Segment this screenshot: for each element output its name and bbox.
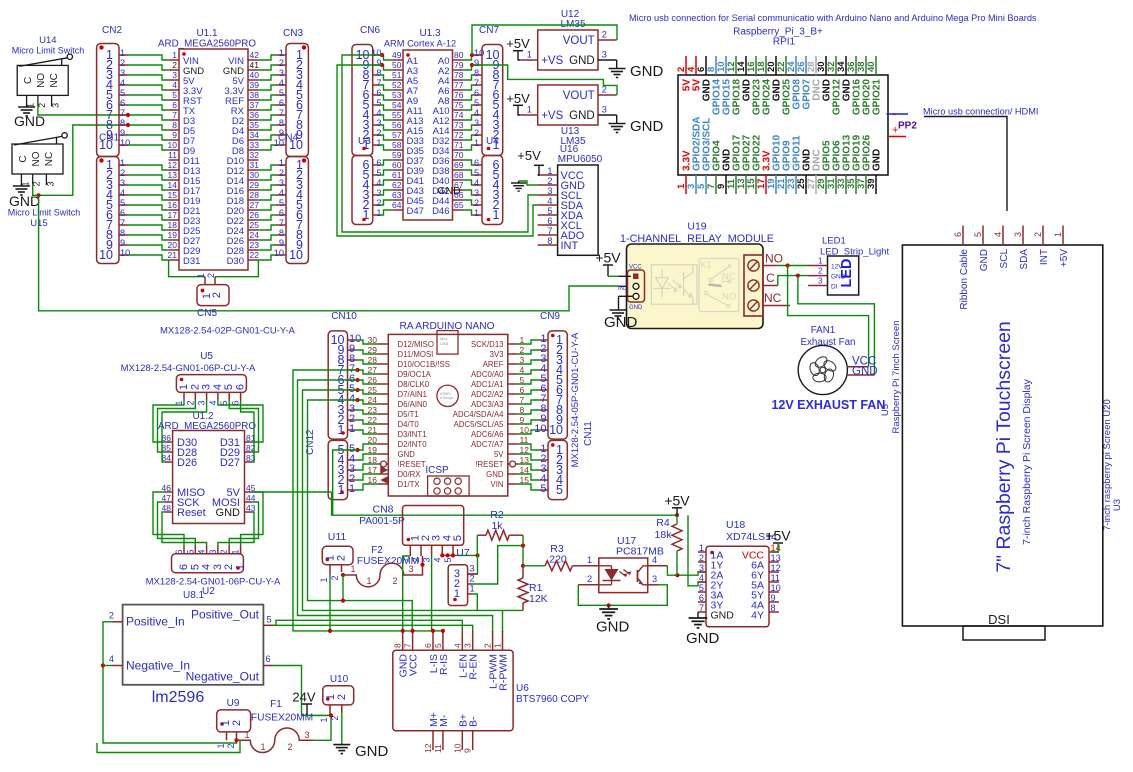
svg-text:+5V: +5V (765, 528, 791, 544)
wire U7 pin2 to R2 right node (472, 546, 523, 584)
svg-text:IN1: IN1 (618, 286, 628, 292)
svg-text:CN3: CN3 (283, 28, 303, 39)
svg-text:RPI1: RPI1 (773, 37, 796, 48)
svg-text:24: 24 (250, 230, 260, 240)
svg-text:GND: GND (398, 450, 416, 459)
svg-text:21: 21 (168, 250, 178, 260)
wire second bottom run (97, 740, 240, 752)
svg-text:CN10: CN10 (331, 311, 357, 322)
svg-text:GND: GND (569, 110, 595, 122)
svg-text:59: 59 (392, 150, 402, 160)
svg-text:U5: U5 (880, 404, 891, 416)
svg-text:NO: NO (36, 73, 47, 88)
svg-text:4: 4 (120, 188, 125, 198)
svg-text:3: 3 (602, 105, 607, 115)
svg-text:U3: U3 (358, 136, 371, 147)
svg-text:U1.1: U1.1 (196, 28, 218, 39)
svg-text:SCL: SCL (999, 249, 1010, 269)
svg-text:6: 6 (547, 216, 552, 226)
svg-text:C: C (23, 77, 34, 84)
svg-text:U10: U10 (330, 674, 349, 685)
svg-text:PP2: PP2 (898, 121, 917, 132)
svg-text:23: 23 (250, 240, 260, 250)
+5V long rail wire (332, 492, 677, 515)
svg-text:6: 6 (279, 208, 284, 218)
svg-text:4: 4 (376, 108, 381, 118)
svg-text:ADC6/A6: ADC6/A6 (471, 430, 504, 439)
svg-text:31: 31 (250, 160, 260, 170)
svg-text:69: 69 (454, 160, 464, 170)
wire CN8 pin1 to U6 GND (403, 556, 411, 631)
svg-text:24V: 24V (292, 690, 315, 705)
svg-text:CN9: CN9 (540, 311, 560, 322)
svg-text:U11: U11 (328, 531, 347, 543)
connector CN2 upper (pins 1-10) (97, 44, 119, 157)
svg-text:13: 13 (168, 170, 178, 180)
NANO usb connector drawing (437, 331, 458, 355)
wire +5V vertical to U18 2Y (688, 515, 706, 586)
svg-text:7: 7 (172, 110, 177, 120)
connector CN7 lower U4 (pins 6-1) (482, 156, 503, 225)
svg-text:4: 4 (279, 188, 284, 198)
svg-text:3: 3 (212, 564, 224, 570)
svg-text:9: 9 (279, 238, 284, 248)
wire trunk CN6 row50 to MPU SDA (337, 65, 538, 236)
svg-text:49: 49 (392, 50, 402, 60)
svg-text:1: 1 (1053, 232, 1063, 237)
svg-text:ARM Cortex A-12: ARM Cortex A-12 (384, 39, 456, 49)
touchscreen U20 7-inch Raspberry Pi (902, 245, 1102, 626)
svg-text:3: 3 (279, 68, 284, 78)
svg-text:U6: U6 (516, 683, 529, 694)
svg-text:10: 10 (534, 423, 546, 435)
svg-text:1: 1 (470, 584, 475, 594)
svg-text:1: 1 (196, 273, 206, 278)
svg-text:79: 79 (454, 60, 464, 70)
svg-text:Micro Limit Switch: Micro Limit Switch (12, 46, 85, 56)
svg-text:8: 8 (547, 236, 552, 246)
svg-text:ATmega: ATmega (440, 396, 453, 400)
svg-text:1: 1 (547, 166, 552, 176)
svg-text:LED1: LED1 (822, 236, 846, 247)
svg-text:+5V: +5V (664, 492, 690, 508)
svg-text:22: 22 (250, 250, 260, 260)
svg-text:2: 2 (376, 198, 381, 208)
svg-text:!RESET: !RESET (475, 460, 503, 469)
svg-text:2: 2 (211, 292, 223, 298)
svg-text:+: + (892, 125, 898, 137)
svg-text:10: 10 (99, 248, 113, 262)
svg-text:76: 76 (454, 90, 464, 100)
svg-text:lm2596: lm2596 (152, 689, 205, 706)
svg-text:10: 10 (274, 138, 284, 148)
wire U11 pin1 down to rail (329, 575, 331, 631)
U17 pin1 stub (581, 565, 599, 567)
svg-text:5: 5 (172, 90, 177, 100)
svg-text:GND: GND (355, 743, 389, 760)
svg-text:80: 80 (454, 50, 464, 60)
svg-text:2: 2 (330, 715, 340, 720)
svg-text:10: 10 (289, 248, 303, 262)
svg-text:R4: R4 (656, 517, 670, 529)
wire relay C to LED GND (778, 276, 808, 286)
svg-text:7: 7 (120, 108, 125, 118)
svg-text:40: 40 (866, 61, 877, 72)
svg-text:C: C (18, 155, 29, 162)
svg-text:1: 1 (235, 564, 247, 570)
ground for U12 (609, 69, 626, 78)
U17 phototransistor (637, 570, 639, 582)
svg-text:10: 10 (452, 743, 462, 753)
connector CN7 upper (pins 10-1) (482, 45, 503, 156)
wire U14 pin2 to CN2 pin7 (38, 105, 128, 115)
ground U17 (608, 605, 610, 609)
junction dot C (796, 274, 800, 278)
svg-text:71: 71 (454, 140, 464, 150)
svg-text:INT: INT (1039, 249, 1050, 265)
svg-text:4: 4 (432, 557, 442, 562)
svg-text:2: 2 (474, 128, 479, 138)
svg-text:72: 72 (454, 130, 464, 140)
svg-text:M-: M- (438, 714, 450, 727)
svg-text:6: 6 (120, 98, 125, 108)
svg-text:3: 3 (279, 178, 284, 188)
svg-text:ICSP: ICSP (425, 465, 449, 476)
svg-text:4: 4 (120, 78, 125, 88)
svg-text:74: 74 (454, 110, 464, 120)
connector CN6 lower U3 (pins 6-1) (352, 156, 373, 225)
svg-text:2: 2 (336, 555, 348, 561)
svg-text:1: 1 (260, 742, 265, 752)
svg-text:9: 9 (474, 58, 479, 68)
svg-text:8: 8 (172, 120, 177, 130)
svg-text:4: 4 (993, 232, 1003, 237)
svg-text:50: 50 (392, 60, 402, 70)
wire F2 right to CN8 pin2 (417, 556, 423, 575)
svg-text:AREF: AREF (483, 360, 504, 369)
svg-text:R-PWM: R-PWM (498, 654, 510, 691)
svg-text:9: 9 (279, 128, 284, 138)
junction dots CN2 rows 7,8 (126, 113, 130, 117)
wire lm2596 Positive_Out to U6 L-EN (274, 620, 463, 632)
svg-text:GND: GND (216, 507, 241, 519)
svg-text:3V3: 3V3 (490, 350, 504, 359)
svg-text:VIN: VIN (491, 480, 504, 489)
svg-text:ADC5/SCL/A5: ADC5/SCL/A5 (454, 420, 504, 429)
wire U12 VOUT to CN7 pin10 (472, 25, 617, 55)
svg-text:+5V: +5V (506, 36, 530, 51)
svg-text:3: 3 (699, 563, 704, 573)
regulator module U8.1 lm2596 (123, 605, 264, 685)
svg-text:10: 10 (120, 248, 130, 258)
svg-text:16: 16 (168, 200, 178, 210)
svg-text:5: 5 (223, 384, 235, 390)
svg-text:+5V: +5V (506, 91, 530, 106)
svg-text:20: 20 (168, 240, 178, 250)
CN2 pin stubs and numbers (119, 54, 128, 56)
node line CN8/R2/U7 (442, 554, 477, 556)
svg-text:10: 10 (474, 48, 484, 58)
svg-text:65: 65 (454, 200, 464, 210)
svg-text:5: 5 (189, 564, 201, 570)
wire node to U7 pin3 (468, 555, 478, 574)
svg-text:6: 6 (120, 208, 125, 218)
touchscreen top pins 6-1 (962, 226, 964, 246)
wires CN8 pins 4,5 to node line (441, 554, 443, 557)
svg-text:CN2: CN2 (102, 25, 122, 36)
svg-text:D46: D46 (432, 206, 449, 217)
svg-text:U1.3: U1.3 (419, 28, 441, 39)
svg-text:1: 1 (474, 138, 479, 148)
wire trunk CN6 row49 to MPU SCL (342, 55, 538, 232)
svg-text:NC: NC (44, 152, 55, 166)
svg-text:8: 8 (771, 603, 776, 613)
svg-text:FUSEX20MM: FUSEX20MM (251, 713, 313, 724)
svg-text:INT: INT (561, 240, 579, 252)
svg-text:1: 1 (493, 208, 500, 222)
svg-text:USB: USB (440, 341, 449, 346)
svg-text:1: 1 (474, 208, 479, 218)
svg-text:2: 2 (483, 643, 493, 648)
connector U2 MX128-2.54-GN01-06P-CU-Y-A (183, 546, 185, 554)
svg-text:Negative_In: Negative_In (126, 659, 190, 673)
wire U17 pin2 pin3 to ground (578, 585, 667, 606)
wires U1.2 to U2 nested (153, 492, 184, 546)
NANO reset circle left / RX TX arrows (381, 461, 387, 467)
svg-text:D5/T1: D5/T1 (398, 410, 419, 419)
svg-text:61: 61 (392, 170, 402, 180)
svg-text:7: 7 (120, 218, 125, 228)
svg-text:D11/MOSI: D11/MOSI (398, 350, 434, 359)
svg-text:32: 32 (250, 150, 260, 160)
svg-text:53: 53 (392, 90, 402, 100)
svg-text:70: 70 (454, 150, 464, 160)
svg-text:U2: U2 (202, 586, 215, 597)
svg-text:8: 8 (120, 118, 125, 128)
svg-text:58: 58 (392, 140, 402, 150)
svg-text:7: 7 (376, 78, 381, 88)
wire U17 pin4 to U18 (667, 566, 706, 575)
U1.1 left pins 1-21 (169, 59, 179, 61)
svg-text:U7: U7 (456, 547, 470, 559)
svg-text:U14: U14 (39, 35, 56, 46)
wire NANO D6 row to U6 VCC node (308, 400, 358, 601)
svg-text:+VS: +VS (541, 55, 563, 67)
svg-text:U18: U18 (726, 519, 745, 531)
svg-text:GND: GND (569, 55, 595, 67)
svg-text:4: 4 (474, 108, 479, 118)
svg-text:7: 7 (474, 78, 479, 88)
wires U1.1 bottom to CN5 (169, 260, 205, 277)
svg-text:GND: GND (979, 249, 990, 271)
svg-text:CN8: CN8 (372, 504, 393, 516)
svg-text:8: 8 (279, 228, 284, 238)
relay input pin header (628, 270, 645, 302)
svg-text:D6/AIN0: D6/AIN0 (398, 400, 428, 409)
svg-text:Reset: Reset (177, 507, 206, 519)
svg-text:D0/RX: D0/RX (398, 470, 422, 479)
svg-text:3: 3 (45, 181, 55, 186)
svg-text:GND: GND (596, 619, 630, 636)
svg-text:2: 2 (279, 58, 284, 68)
svg-text:5: 5 (279, 198, 284, 208)
svg-text:ADC0/A0: ADC0/A0 (471, 370, 504, 379)
svg-text:33: 33 (250, 140, 260, 150)
svg-text:ADC2/A2: ADC2/A2 (471, 390, 504, 399)
RPI1 bottom pins (odd 1-39) (685, 175, 687, 194)
svg-text:D9/OC1A: D9/OC1A (398, 370, 432, 379)
U17 pin4 stub (648, 565, 668, 567)
svg-text:!RESET: !RESET (398, 460, 426, 469)
svg-text:1: 1 (120, 48, 125, 58)
svg-text:4: 4 (208, 400, 218, 405)
CN7 stubs numbers wires to U1.3 (473, 54, 482, 56)
svg-text:CN11: CN11 (583, 421, 594, 446)
resistor R1 12K (518, 578, 528, 603)
svg-text:9: 9 (120, 128, 125, 138)
wire F2 node down and to U6 VCC (343, 575, 412, 631)
wire lm2596 Negative_Out to 24V node (273, 666, 330, 716)
svg-text:MPU6050: MPU6050 (558, 154, 603, 165)
svg-text:4: 4 (109, 654, 114, 664)
svg-text:3: 3 (652, 574, 657, 584)
svg-text:U4: U4 (486, 136, 499, 147)
svg-text:78: 78 (454, 70, 464, 80)
svg-text:1: 1 (120, 158, 125, 168)
svg-text:4: 4 (474, 178, 479, 188)
junction dot CN12 row 5 (355, 448, 359, 452)
svg-text:56: 56 (392, 120, 402, 130)
svg-text:Negative_Out: Negative_Out (186, 670, 260, 684)
NANO left pins 30-16 (379, 343, 389, 345)
svg-text:1: 1 (818, 257, 823, 266)
relay ghost optocoupler drawing (651, 265, 697, 305)
svg-text:18: 18 (168, 220, 178, 230)
svg-text:5: 5 (443, 557, 453, 562)
svg-text:4Y: 4Y (751, 610, 764, 622)
svg-text:17: 17 (168, 210, 178, 220)
wire U15 node to relay IN1 long run (39, 195, 619, 310)
svg-text:D30: D30 (227, 256, 244, 267)
svg-text:D1/TX: D1/TX (398, 480, 421, 489)
svg-text:DI: DI (831, 284, 838, 291)
svg-text:NO: NO (765, 252, 783, 266)
wire CN12 pin5 to +5V rail (333, 450, 358, 515)
svg-text:6: 6 (699, 593, 704, 603)
svg-text:1: 1 (699, 543, 704, 553)
svg-text:75: 75 (454, 100, 464, 110)
svg-text:1: 1 (527, 105, 532, 115)
CN9/CN11 stubs and wires to NANO (540, 339, 548, 341)
svg-text:62: 62 (392, 180, 402, 190)
svg-text:6: 6 (178, 564, 190, 570)
connector CN6 upper (pins 10-1) (352, 45, 373, 156)
svg-text:8: 8 (376, 68, 381, 78)
svg-text:D26: D26 (177, 457, 197, 469)
svg-text:+VS: +VS (541, 110, 563, 122)
svg-text:1: 1 (338, 423, 345, 437)
svg-text:3: 3 (51, 103, 61, 108)
svg-text:6: 6 (474, 88, 479, 98)
svg-text:2: 2 (185, 400, 195, 405)
wires U5 to U1.2 nested (153, 400, 184, 442)
svg-text:D27: D27 (220, 457, 240, 469)
svg-text:3: 3 (602, 50, 607, 60)
svg-text:5: 5 (376, 168, 381, 178)
svg-text:GND: GND (711, 610, 735, 622)
svg-text:77: 77 (454, 80, 464, 90)
junction dot NO (786, 263, 790, 267)
svg-text:18k: 18k (655, 529, 673, 541)
svg-text:3: 3 (474, 118, 479, 128)
svg-text:NO: NO (722, 292, 736, 303)
svg-text:3: 3 (120, 68, 125, 78)
svg-text:D31: D31 (183, 256, 200, 267)
svg-text:+5V: +5V (1059, 249, 1070, 267)
svg-text:12: 12 (423, 743, 433, 753)
svg-text:1: 1 (319, 717, 329, 722)
svg-text:57: 57 (392, 130, 402, 140)
svg-text:8: 8 (474, 68, 479, 78)
svg-text:2: 2 (109, 611, 114, 621)
svg-text:+5V: +5V (517, 148, 541, 163)
svg-text:2: 2 (279, 168, 284, 178)
svg-text:D12/MISO: D12/MISO (398, 340, 434, 349)
svg-text:1: 1 (350, 564, 355, 574)
svg-text:+5V: +5V (595, 250, 621, 266)
wires CN2 to U1.1 rows (128, 55, 169, 60)
svg-text:ADC4/SDA/A4: ADC4/SDA/A4 (453, 410, 504, 419)
svg-text:3: 3 (547, 186, 552, 196)
wire lm2596 inputs down to F1 (103, 622, 237, 743)
temperature sensor U13 LM35 (538, 85, 598, 125)
svg-text:7: 7 (279, 218, 284, 228)
wire C node to fan GND (798, 276, 875, 375)
svg-text:68: 68 (454, 170, 464, 180)
svg-text:U9: U9 (227, 698, 240, 709)
svg-text:ADC1/A1: ADC1/A1 (471, 380, 504, 389)
svg-text:1: 1 (493, 643, 503, 648)
svg-text:2: 2 (818, 267, 823, 276)
svg-text:10: 10 (120, 138, 130, 148)
CN10/CN12 stubs numbers wires to NANO (348, 339, 356, 341)
svg-text:11: 11 (433, 744, 443, 753)
svg-text:9: 9 (463, 748, 473, 753)
svg-text:NC: NC (722, 272, 736, 283)
svg-text:1: 1 (178, 384, 190, 390)
U17 light arrows (620, 570, 631, 577)
svg-text:D2/INT0: D2/INT0 (398, 440, 428, 449)
svg-text:8: 8 (120, 228, 125, 238)
svg-text:5: 5 (120, 198, 125, 208)
svg-text:5: 5 (973, 232, 983, 237)
svg-text:3: 3 (474, 188, 479, 198)
svg-text:25: 25 (250, 220, 260, 230)
svg-text:41: 41 (250, 60, 260, 70)
svg-text:1: 1 (279, 48, 284, 58)
svg-text:D4/T0: D4/T0 (398, 420, 420, 429)
NANO right pins 1-15 (508, 343, 518, 345)
svg-text:39: 39 (866, 178, 877, 189)
svg-text:ARD_MEGA2560PRO: ARD_MEGA2560PRO (158, 39, 256, 50)
relay ghost relay K1 drawing (699, 259, 739, 312)
svg-text:CN6: CN6 (360, 25, 380, 36)
lm2596 pins (112, 621, 123, 623)
svg-text:7: 7 (699, 603, 704, 613)
wire CN8 pin3 to U6 L-IS (431, 556, 433, 631)
svg-text:Micro usb connection/ HDMI: Micro usb connection/ HDMI (923, 107, 1038, 117)
svg-text:63: 63 (392, 190, 402, 200)
